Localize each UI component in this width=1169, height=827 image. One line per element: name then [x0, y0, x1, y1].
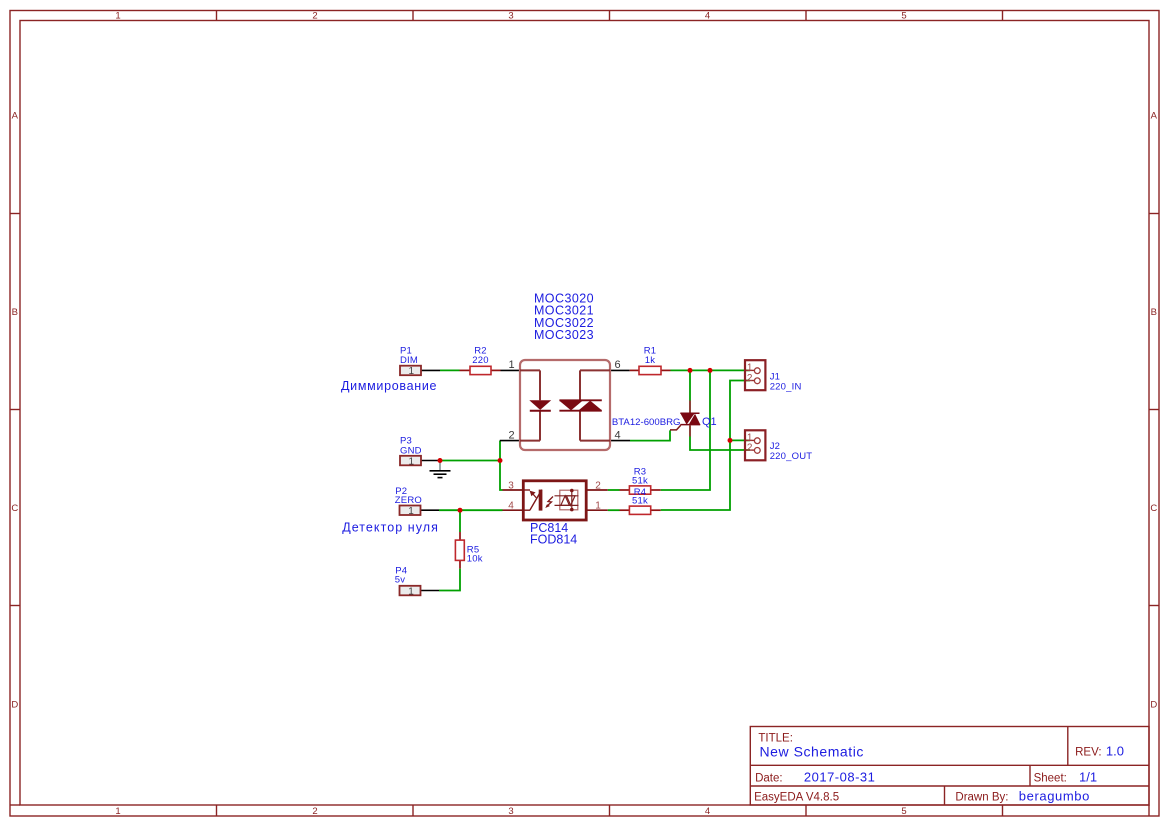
- svg-text:C: C: [1150, 503, 1157, 514]
- node J2pin1 junction: [728, 438, 733, 443]
- resistor R5: [455, 532, 482, 569]
- svg-text:5: 5: [901, 806, 906, 817]
- port pin black leads: [420, 370, 630, 590]
- pin 6 lead U1: [610, 369, 630, 371]
- svg-text:B: B: [12, 307, 18, 318]
- connector J2: [745, 430, 812, 462]
- wire PC814 pin1 to R4: [608, 509, 620, 511]
- value U1: [534, 292, 594, 343]
- svg-text:220_IN: 220_IN: [770, 381, 802, 392]
- wire P2 pin lead: [420, 509, 439, 511]
- wire P1 pin lead: [421, 369, 440, 371]
- svg-text:GND: GND: [400, 445, 422, 456]
- svg-text:D: D: [1150, 700, 1157, 711]
- svg-text:C: C: [11, 503, 18, 514]
- wire J2 pin1 stub: [730, 439, 750, 441]
- svg-text:6: 6: [614, 359, 620, 371]
- frame row letters: [11, 111, 1157, 711]
- wire P3 pin lead: [421, 460, 440, 462]
- svg-text:2017-08-31: 2017-08-31: [804, 769, 876, 784]
- resistor R4: [620, 487, 661, 514]
- wire P2 node down to R5: [459, 510, 461, 532]
- svg-text:2: 2: [312, 806, 317, 817]
- wire P1 to R2: [440, 369, 460, 371]
- photo triac inside U2: [560, 490, 578, 510]
- node GND-U1pin2 junction: [498, 458, 503, 463]
- svg-text:2: 2: [508, 430, 514, 442]
- node R3 junction: [708, 368, 713, 373]
- LED inside U2: [523, 490, 542, 511]
- junction dots: [438, 368, 733, 513]
- svg-text:D: D: [11, 700, 18, 711]
- svg-text:3: 3: [508, 11, 513, 22]
- svg-text:1/1: 1/1: [1079, 769, 1097, 784]
- svg-text:1: 1: [115, 806, 120, 817]
- svg-text:Диммирование: Диммирование: [341, 379, 437, 393]
- svg-text:BTA12-600BRG: BTA12-600BRG: [612, 417, 681, 428]
- svg-text:3: 3: [508, 806, 513, 817]
- svg-text:ZERO: ZERO: [395, 495, 422, 506]
- resistor R2: [460, 346, 501, 375]
- svg-text:MOC3023: MOC3023: [534, 328, 594, 342]
- wire node to Q1 to J2 pin2 vertical: [690, 370, 750, 450]
- svg-text:1: 1: [408, 586, 414, 597]
- pin numbers U2: [508, 481, 601, 512]
- svg-text:1k: 1k: [645, 355, 655, 366]
- svg-text:1: 1: [595, 500, 601, 511]
- svg-text:51k: 51k: [632, 475, 648, 486]
- svg-text:FOD814: FOD814: [530, 533, 577, 547]
- svg-text:51k: 51k: [632, 495, 648, 506]
- wire P4 pin lead: [420, 590, 439, 592]
- svg-text:beragumbo: beragumbo: [1019, 788, 1090, 803]
- svg-text:EasyEDA V4.8.5: EasyEDA V4.8.5: [754, 791, 839, 803]
- svg-text:A: A: [12, 111, 19, 122]
- svg-text:1: 1: [508, 359, 514, 371]
- frame column numbers top: [115, 11, 906, 22]
- svg-text:Детектор нуля: Детектор нуля: [342, 521, 439, 535]
- svg-text:10k: 10k: [467, 553, 483, 564]
- connector P4: [395, 565, 421, 597]
- svg-text:4: 4: [508, 500, 514, 511]
- svg-text:1.0: 1.0: [1106, 744, 1124, 759]
- svg-text:New Schematic: New Schematic: [760, 743, 864, 759]
- pin numbers U1: [508, 359, 620, 441]
- svg-text:1: 1: [747, 362, 753, 373]
- connector P1: [400, 346, 421, 378]
- svg-text:REV:: REV:: [1075, 747, 1101, 759]
- svg-text:3: 3: [508, 481, 514, 492]
- svg-text:B: B: [1151, 307, 1157, 318]
- pin 1 lead U1: [501, 369, 521, 371]
- wire R1 to J1 pin1: [671, 369, 751, 371]
- ground symbol: [430, 461, 451, 478]
- node P3-GND junction: [438, 458, 443, 463]
- wire node to R3 vertical: [661, 370, 710, 490]
- svg-text:1: 1: [408, 506, 414, 517]
- svg-text:1: 1: [409, 366, 415, 377]
- svg-text:2: 2: [747, 443, 753, 454]
- LED inside U1: [529, 400, 551, 410]
- triac inside U1: [559, 399, 601, 401]
- title block: [750, 727, 1149, 806]
- wire PC814 pin2 to R3: [608, 489, 620, 491]
- svg-text:220_OUT: 220_OUT: [770, 451, 813, 462]
- transistor Q1 triac: [612, 401, 717, 437]
- connector P3: [400, 435, 422, 467]
- wire P3 gnd row: [440, 460, 500, 462]
- svg-text:Drawn By:: Drawn By:: [955, 791, 1008, 803]
- svg-text:2: 2: [312, 11, 317, 22]
- wire MOC pin2 down to PC814 pin3: [500, 441, 503, 490]
- wire R5 to P4: [439, 569, 460, 591]
- optotriac U1 MOC3020: [508, 292, 620, 451]
- svg-text:2: 2: [595, 481, 601, 492]
- svg-text:1: 1: [409, 456, 415, 467]
- svg-text:Q1: Q1: [702, 416, 717, 428]
- svg-text:Sheet:: Sheet:: [1034, 772, 1067, 784]
- svg-text:4: 4: [614, 430, 620, 442]
- svg-text:4: 4: [705, 11, 710, 22]
- connector P2: [395, 486, 422, 517]
- connector J1: [745, 360, 802, 392]
- node R1-Q1 junction: [688, 368, 693, 373]
- svg-text:1: 1: [115, 11, 120, 22]
- optocoupler U2 PC814 body: [503, 481, 608, 547]
- pin 4 lead U1: [610, 440, 630, 442]
- title block text: [754, 732, 1101, 803]
- wire MOC pin4 to Q1 gate: [630, 430, 670, 440]
- svg-text:DIM: DIM: [400, 355, 418, 366]
- svg-text:5v: 5v: [395, 574, 405, 585]
- node P2-R5 junction: [458, 508, 463, 513]
- svg-text:4: 4: [705, 806, 710, 817]
- svg-text:A: A: [1151, 111, 1158, 122]
- svg-text:220: 220: [472, 355, 488, 366]
- svg-text:2: 2: [747, 373, 753, 384]
- svg-text:Date:: Date:: [755, 772, 783, 784]
- resistor R3: [620, 466, 661, 494]
- svg-text:5: 5: [901, 11, 906, 22]
- frame column numbers bottom: [115, 806, 906, 817]
- wire P2 to PC814 pin4: [439, 509, 503, 511]
- wire segments (green nets): [439, 370, 750, 590]
- light arrow inside U2: [547, 497, 554, 507]
- resistor R1: [630, 346, 671, 375]
- wire J1 pin2 down to J2 pin1 and R4: [661, 381, 750, 511]
- pin 2 lead U1: [500, 440, 520, 442]
